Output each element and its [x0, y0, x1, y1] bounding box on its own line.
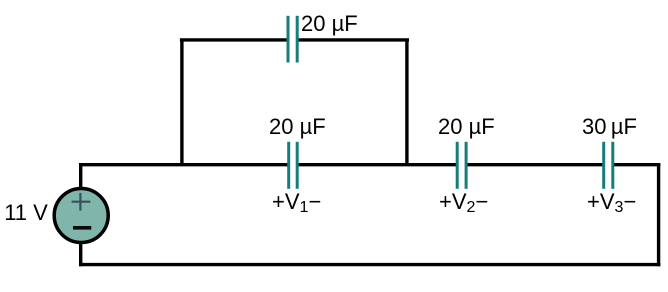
- wire: main horizontal segment 4 (C-V3 to right corner): [613, 163, 661, 166]
- svg-text:30 µF: 30 µF: [582, 114, 637, 139]
- capacitor 20uF C-V2 (plates): [457, 142, 466, 189]
- voltage source VS 11V (circle body): [54, 189, 108, 243]
- svg-text:20 µF: 20 µF: [301, 11, 358, 36]
- voltage source plus symbol: [72, 193, 91, 211]
- svg-text:+V2−: +V2−: [439, 189, 488, 216]
- wire: top horizontal right segment: [297, 38, 409, 41]
- wire: main horizontal segment 2 (C-V1 to C-V2): [297, 163, 457, 166]
- capacitor 30uF C-V3 (plates): [604, 142, 613, 189]
- wire: source top lead: [79, 163, 82, 192]
- svg-text:11 V: 11 V: [4, 200, 48, 225]
- svg-text:20 µF: 20 µF: [269, 114, 326, 139]
- wire: top loop left vertical: [180, 40, 183, 165]
- wire: top loop right vertical: [405, 40, 408, 165]
- voltage source minus symbol: [73, 226, 91, 230]
- wire: right vertical: [657, 163, 660, 266]
- capacitor 20uF top parallel branch (plates): [288, 16, 297, 63]
- wire: main horizontal segment 1 (source top to C-V1): [81, 163, 289, 166]
- svg-text:20 µF: 20 µF: [438, 114, 495, 139]
- svg-text:+V3−: +V3−: [587, 189, 636, 216]
- wire: top horizontal left segment: [180, 38, 288, 41]
- wire: source bottom lead: [79, 240, 82, 266]
- svg-text:+V1−: +V1−: [272, 189, 321, 216]
- capacitor 20uF C-V1 (plates): [289, 142, 298, 189]
- wire: main horizontal segment 3 (C-V2 to C-V3): [466, 163, 604, 166]
- wire: bottom horizontal: [79, 263, 660, 266]
